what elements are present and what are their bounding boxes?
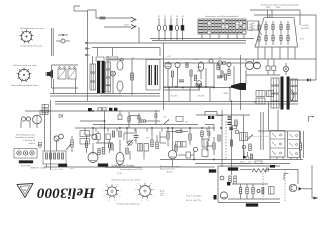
svg-text:Entbr.: Entbr. bbox=[240, 161, 245, 164]
resistor R61 bbox=[246, 188, 248, 194]
winding boxes below bbox=[256, 91, 265, 97]
capacitor C60 bbox=[261, 187, 263, 195]
coil L1 bbox=[40, 111, 48, 115]
connector pin 2 bbox=[23, 151, 27, 155]
resistor R5 bbox=[71, 140, 73, 147]
resistor R6b bbox=[49, 153, 51, 159]
capacitor C50b bbox=[155, 65, 157, 85]
wire v163 bbox=[163, 43, 165, 110]
svg-text:0,05: 0,05 bbox=[163, 117, 167, 119]
tube V3a bbox=[21, 117, 25, 121]
wire taps y128 bbox=[84, 128, 86, 132]
capacitor C21 bbox=[106, 134, 110, 140]
wire seg b bbox=[85, 134, 93, 136]
rectifier tube V9 cathode bbox=[117, 81, 123, 91]
wire to mains bbox=[74, 6, 80, 11]
capacitor block frame bbox=[146, 60, 160, 91]
svg-text:Rö7: Rö7 bbox=[249, 24, 252, 26]
wire hv top bbox=[250, 9, 300, 11]
volume pot P2 bbox=[128, 141, 132, 145]
svg-text:6V: 6V bbox=[164, 16, 167, 18]
wire bus y47 bbox=[92, 47, 160, 49]
resistor R33 bbox=[221, 71, 223, 77]
parts right cluster bbox=[235, 120, 237, 126]
svg-text:Rö8: Rö8 bbox=[249, 30, 252, 32]
resistor R23 bbox=[176, 130, 182, 132]
resistor R10 bbox=[102, 148, 105, 155]
svg-text:a: a bbox=[135, 189, 136, 191]
svg-text:1k: 1k bbox=[219, 57, 221, 59]
capacitor C61 bbox=[269, 187, 275, 195]
wire switch drop bbox=[138, 27, 140, 43]
resistor R40 bbox=[249, 144, 251, 151]
svg-text:a: a bbox=[141, 200, 142, 202]
svg-text:Rö 5-7: Ub 240V: Rö 5-7: Ub 240V bbox=[186, 196, 202, 198]
dark mark arrow bbox=[314, 197, 319, 200]
junction dots 3 bbox=[220, 127, 221, 128]
diode small bbox=[307, 78, 311, 82]
connector hatch bbox=[19, 161, 33, 164]
voltage table bbox=[198, 19, 246, 34]
wire seg j bbox=[129, 116, 131, 122]
wire seg a bbox=[96, 142, 113, 144]
wire seg f bbox=[166, 131, 176, 133]
svg-text:Stromlaufplan Heli 3000: Stromlaufplan Heli 3000 bbox=[120, 168, 143, 171]
tube V13 bbox=[209, 59, 213, 63]
svg-text:drehen: drehen bbox=[29, 143, 35, 145]
svg-text:a: a bbox=[148, 200, 149, 202]
dark cap C59 bbox=[227, 182, 230, 185]
wire hv second bbox=[254, 14, 316, 16]
wire top steps bbox=[205, 112, 223, 116]
wire panel drops bbox=[257, 47, 259, 60]
resistor R37 bbox=[186, 63, 188, 68]
tube V19 bbox=[220, 192, 227, 199]
svg-text:Ma: Ma bbox=[249, 162, 252, 164]
capacitor C31 bbox=[217, 75, 222, 77]
wire bus y111 bbox=[42, 110, 160, 112]
tube V10 electrodes bbox=[167, 63, 172, 65]
wire right edge bbox=[315, 15, 317, 45]
wire left column bbox=[44, 104, 46, 151]
pilot lamp bbox=[111, 71, 116, 76]
wire table drops bbox=[201, 34, 203, 39]
svg-text:0,1: 0,1 bbox=[228, 78, 231, 80]
voltage selector bbox=[96, 57, 104, 61]
wire stage1 bbox=[92, 143, 94, 153]
capacitor C50a bbox=[149, 65, 151, 85]
resistor R11 bbox=[112, 131, 114, 137]
wire out right bbox=[290, 79, 316, 81]
svg-text:Tonabnehmer Schalter: Tonabnehmer Schalter bbox=[15, 136, 35, 139]
tube V16 bbox=[246, 62, 254, 70]
vertical x231 bbox=[231, 100, 233, 175]
resistor R14 bbox=[151, 140, 153, 147]
wire dashed v285 bbox=[284, 169, 286, 201]
wire y99 drops bbox=[168, 88, 170, 102]
svg-text:M 1:1: M 1:1 bbox=[118, 173, 123, 175]
wire bus y167 bbox=[44, 166, 215, 168]
switch S1 contacts bbox=[131, 17, 135, 22]
hatch label box3 bbox=[209, 170, 216, 173]
wire v240 bbox=[240, 55, 242, 110]
inner box corner bbox=[284, 174, 289, 181]
svg-text:a: a bbox=[120, 196, 121, 198]
svg-text:Heli3000: Heli3000 bbox=[37, 184, 97, 200]
lamp La5 bbox=[182, 18, 184, 25]
svg-text:Masse gemessen: Masse gemessen bbox=[160, 169, 175, 171]
transformer T1 secondary bbox=[106, 62, 111, 69]
svg-text:a: a bbox=[154, 189, 155, 191]
resistor R36 bbox=[217, 64, 219, 70]
pot P3 arrow bbox=[164, 120, 169, 125]
preamp box bbox=[43, 151, 66, 164]
connector pin 3 bbox=[30, 151, 34, 155]
hatched box H2 bbox=[176, 142, 181, 148]
pot P4 arrow bbox=[247, 135, 253, 141]
wire lamp bus bbox=[150, 38, 254, 40]
tube V7 bbox=[168, 150, 176, 158]
input jack J2 bbox=[80, 139, 90, 145]
wire bus y59 bbox=[108, 58, 316, 60]
wire bus y104 bbox=[55, 103, 298, 105]
wire bus y89 bbox=[163, 87, 240, 89]
meter M1 bbox=[59, 134, 64, 139]
tube V17 bbox=[254, 62, 261, 69]
diode bridge a bbox=[266, 66, 270, 71]
wire v268 bbox=[268, 102, 270, 131]
vertical x221 bbox=[221, 110, 223, 167]
wire seg e bbox=[159, 132, 161, 138]
hatch label box2 bbox=[228, 168, 238, 171]
wire ps drops bbox=[92, 56, 94, 64]
lamp La4 bbox=[176, 18, 178, 25]
wire y121 bbox=[80, 120, 105, 122]
capacitor C20 bbox=[96, 134, 100, 140]
wire left vertical bbox=[50, 100, 52, 170]
wire tone drops bbox=[172, 128, 174, 150]
tube V10 bbox=[165, 62, 171, 68]
svg-text:Ua 250V: Ua 250V bbox=[301, 25, 309, 27]
wire mid cluster bbox=[126, 128, 128, 143]
lamp cross bbox=[283, 66, 288, 71]
svg-text:a: a bbox=[112, 182, 113, 184]
transistor Q1 bbox=[54, 136, 59, 141]
svg-text:in Stellung TA: in Stellung TA bbox=[23, 139, 36, 142]
node B bbox=[193, 147, 197, 151]
small box C42 bbox=[233, 126, 237, 129]
block border top bbox=[230, 163, 290, 165]
wire bus y96 bbox=[50, 95, 160, 97]
svg-text:Bei Wiedergabe über: Bei Wiedergabe über bbox=[16, 134, 35, 136]
wire dashed bbox=[225, 121, 227, 160]
junction dots bus128 bbox=[92, 127, 93, 128]
panel resistors bbox=[265, 25, 267, 30]
dark tick top bbox=[270, 165, 275, 168]
svg-text:1M: 1M bbox=[133, 140, 136, 142]
junction dots bus89 bbox=[168, 87, 169, 88]
wire seg i bbox=[160, 142, 166, 144]
wire seg c bbox=[123, 133, 125, 140]
wire dashed v263 bbox=[262, 173, 264, 201]
transformer T1 primary bbox=[90, 64, 96, 72]
wire seg g bbox=[178, 154, 186, 156]
input terminal bbox=[39, 145, 42, 148]
mains terminal 1 bbox=[85, 42, 87, 44]
svg-text:TA TB UKW: TA TB UKW bbox=[20, 164, 30, 167]
relay K2 bbox=[68, 69, 76, 79]
wire out bottom bbox=[302, 188, 312, 190]
node C bbox=[242, 145, 246, 149]
small cluster parts bbox=[243, 156, 246, 158]
wire seg h bbox=[207, 145, 213, 147]
block dark corner bbox=[214, 195, 217, 200]
junction dots 2 bbox=[104, 120, 105, 121]
resistor R50 bbox=[229, 176, 231, 183]
tube socket V1 bbox=[21, 31, 31, 41]
relay K1 bbox=[58, 69, 66, 79]
speaker LS1 bbox=[47, 70, 53, 79]
wire lower mains bbox=[104, 26, 131, 28]
svg-text:a: a bbox=[153, 196, 154, 198]
svg-text:a: a bbox=[115, 200, 116, 202]
node A bbox=[62, 34, 64, 36]
svg-text:6V: 6V bbox=[176, 16, 179, 18]
wire dotted link bbox=[246, 136, 270, 138]
output panel trapezoid bbox=[255, 18, 298, 47]
socket diagram D1 bbox=[107, 187, 116, 196]
rectifier tube V9 anode bbox=[117, 61, 123, 70]
resistor R31 bbox=[190, 70, 192, 76]
tube V3b bbox=[26, 117, 30, 121]
svg-text:EF86: EF86 bbox=[224, 93, 230, 95]
svg-text:8Ω: 8Ω bbox=[254, 102, 257, 104]
hatch label box4 bbox=[246, 204, 258, 207]
tube socket V2 bbox=[18, 69, 29, 80]
hatch strip center bbox=[98, 164, 108, 167]
wire taps bbox=[267, 10, 269, 18]
lamp La2 bbox=[164, 18, 166, 25]
diode D5 bbox=[299, 187, 303, 191]
wire y124 bbox=[93, 124, 160, 126]
wire bus y43 bbox=[88, 42, 247, 44]
resistor R6 bbox=[45, 153, 47, 159]
wire bus y128 bbox=[75, 127, 215, 129]
svg-text:0,47: 0,47 bbox=[300, 39, 304, 41]
svg-text:Röhrenfassung von unten: Röhrenfassung von unten bbox=[20, 27, 45, 30]
tube V18 bbox=[197, 81, 202, 86]
resistor R12 bbox=[119, 131, 121, 137]
capacitor C24 bbox=[186, 152, 191, 158]
wire sb top bbox=[258, 130, 287, 132]
resistor R13 bbox=[126, 148, 128, 154]
resistor R7 bbox=[53, 153, 55, 159]
wire down corner bbox=[311, 165, 313, 189]
resistor R18 bbox=[189, 134, 191, 140]
switch bank SB1 bbox=[270, 131, 285, 158]
svg-text:a: a bbox=[138, 183, 139, 185]
svg-text:6V: 6V bbox=[181, 16, 184, 18]
svg-text:a: a bbox=[102, 190, 103, 192]
capacitor C41 bbox=[228, 121, 232, 123]
resistor R30 bbox=[171, 71, 173, 77]
svg-text:ARB.NR. 1153/62: ARB.NR. 1153/62 bbox=[31, 166, 48, 169]
lamp La3 bbox=[170, 18, 172, 25]
resistor R16 bbox=[167, 133, 169, 139]
resistor R22 bbox=[98, 149, 100, 155]
svg-text:a: a bbox=[145, 181, 146, 183]
svg-text:Röhrenfassung von unten: Röhrenfassung von unten bbox=[13, 64, 38, 67]
svg-text:220V~: 220V~ bbox=[124, 25, 131, 27]
tube V14 bbox=[218, 61, 222, 65]
wire bus y159 bbox=[160, 159, 303, 161]
tube V6 bbox=[116, 152, 124, 164]
svg-text:Ug2 245V: Ug2 245V bbox=[301, 28, 310, 30]
tube V5 bbox=[88, 153, 98, 163]
svg-text:gepr.: gepr. bbox=[70, 168, 75, 170]
connector strip X1 bbox=[14, 149, 37, 159]
svg-text:Schaltung der Fassung: Schaltung der Fassung bbox=[20, 45, 42, 48]
resistor R19 bbox=[201, 131, 203, 137]
transistor Q3 bbox=[289, 184, 297, 192]
resistor R7c bbox=[61, 153, 63, 159]
svg-text:245V: 245V bbox=[276, 7, 281, 9]
node D bbox=[257, 190, 260, 193]
svg-text:a: a bbox=[106, 184, 107, 186]
fuse F1 bbox=[100, 17, 105, 19]
wire y115 bbox=[196, 114, 250, 116]
resistor R25 bbox=[218, 135, 220, 141]
wire mains vertical bbox=[87, 10, 89, 101]
svg-text:50k: 50k bbox=[185, 122, 188, 124]
speaker jack dark bbox=[231, 83, 246, 90]
capacitor C40 bbox=[228, 116, 232, 118]
resistor R21 bbox=[111, 144, 113, 150]
transformer T2 primary bbox=[271, 78, 279, 85]
svg-text:a: a bbox=[117, 184, 118, 186]
wire v258 pair bbox=[260, 112, 262, 150]
transformer T1 core bbox=[97, 61, 100, 93]
transformer T2 core bbox=[281, 77, 284, 110]
svg-text:a: a bbox=[136, 196, 137, 198]
svg-text:a: a bbox=[108, 200, 109, 202]
capacitor C22 bbox=[134, 135, 139, 137]
note box bbox=[248, 21, 259, 30]
bent arrow bbox=[309, 117, 313, 122]
svg-text:Spannungs- und Widerstandstabe: Spannungs- und Widerstandstabelle bbox=[205, 15, 239, 18]
svg-text:EL84: EL84 bbox=[249, 27, 253, 29]
capacitor C27 bbox=[137, 116, 141, 118]
resistor R41 bbox=[299, 143, 301, 150]
capacitor C11 bbox=[109, 108, 112, 111]
resistor R28 bbox=[85, 141, 87, 148]
wire tube links bbox=[20, 121, 22, 128]
resistor R62 bbox=[252, 188, 254, 194]
hatch label box bbox=[59, 164, 68, 167]
tube V12 bbox=[198, 62, 203, 71]
svg-text:Funkw. Hall: Funkw. Hall bbox=[52, 169, 63, 171]
curved bracket bbox=[291, 90, 294, 101]
panel left resistors bbox=[258, 25, 260, 30]
svg-text:Schaltbild des Gerätes: Schaltbild des Gerätes bbox=[111, 165, 135, 168]
potentiometer P1 arrow bbox=[66, 144, 71, 150]
diode D1 bbox=[59, 114, 62, 118]
mains terminal 2 bbox=[85, 48, 87, 50]
wire trafo feeds bbox=[97, 48, 99, 57]
wire bus y93 bbox=[50, 93, 160, 95]
resistor R26 bbox=[140, 120, 146, 122]
transistor Q2 bbox=[220, 176, 224, 180]
svg-text:6V: 6V bbox=[170, 16, 173, 18]
wire driver drops bbox=[167, 69, 169, 87]
resistor R51 bbox=[234, 176, 236, 184]
capacitor C23 bbox=[207, 131, 209, 136]
svg-text:a: a bbox=[104, 196, 105, 198]
resistor R24 bbox=[213, 143, 215, 149]
svg-text:6,3V: 6,3V bbox=[167, 56, 171, 58]
tube V12 electrodes bbox=[197, 66, 201, 68]
input jack J1 bbox=[80, 131, 90, 137]
svg-text:Arb.Nr.: Arb.Nr. bbox=[167, 171, 173, 174]
tube V11 bbox=[175, 62, 180, 67]
svg-text:250V: 250V bbox=[194, 59, 199, 61]
dark corner mark bbox=[230, 127, 233, 130]
capacitor C30 bbox=[179, 79, 184, 81]
lamp La1 bbox=[158, 18, 160, 25]
switch bank SB2 bbox=[288, 131, 300, 158]
svg-text:25u: 25u bbox=[146, 138, 149, 140]
capacitor C14 bbox=[144, 144, 149, 152]
resistor R20 bbox=[131, 73, 134, 80]
resistor R7b bbox=[57, 153, 59, 159]
wire mains step bbox=[88, 10, 132, 18]
capacitor C26 bbox=[118, 115, 122, 120]
diode bridge b bbox=[272, 66, 276, 71]
capacitor C15 bbox=[202, 139, 208, 147]
wire hv corner bbox=[299, 10, 301, 25]
wire bus y101 bbox=[55, 101, 298, 103]
svg-text:6V: 6V bbox=[158, 16, 161, 18]
resistor R17 bbox=[175, 145, 177, 151]
svg-text:ECC83: ECC83 bbox=[171, 96, 178, 98]
svg-text:NETZTEIL 250V= 6,3V~: NETZTEIL 250V= 6,3V~ bbox=[101, 96, 123, 98]
svg-text:0,1: 0,1 bbox=[100, 126, 103, 128]
box tone bbox=[176, 117, 183, 122]
wire right v303 bbox=[303, 131, 305, 158]
resistor R15 bbox=[156, 142, 158, 149]
resistor R60 bbox=[239, 188, 241, 194]
svg-text:4 W: 4 W bbox=[160, 195, 163, 197]
capacitor C13 bbox=[138, 144, 143, 152]
resistor zigzag bbox=[252, 169, 266, 173]
capacitor C16 bbox=[202, 149, 208, 157]
capacitor C12 bbox=[108, 143, 110, 148]
wire block bottom bbox=[52, 87, 79, 89]
svg-text:Anodenspannungen am Ausgangsüb: Anodenspannungen am Ausgangsübertrager bbox=[261, 4, 299, 7]
resistor R32 bbox=[194, 75, 196, 81]
vertical x243 bbox=[243, 115, 245, 160]
capacitor C10 bbox=[98, 108, 102, 111]
svg-text:Anschlußbelegung der Röhre: Anschlußbelegung der Röhre bbox=[11, 84, 39, 87]
svg-text:ECC83: ECC83 bbox=[198, 96, 205, 98]
node grid bbox=[92, 134, 97, 139]
transformer T2 secondary bbox=[291, 79, 298, 86]
cap dark pair bbox=[208, 116, 211, 119]
capacitor C1 bbox=[61, 39, 65, 43]
svg-text:290V: 290V bbox=[266, 7, 271, 9]
wire bus y163 bbox=[195, 163, 250, 165]
svg-text:W: W bbox=[23, 188, 26, 192]
